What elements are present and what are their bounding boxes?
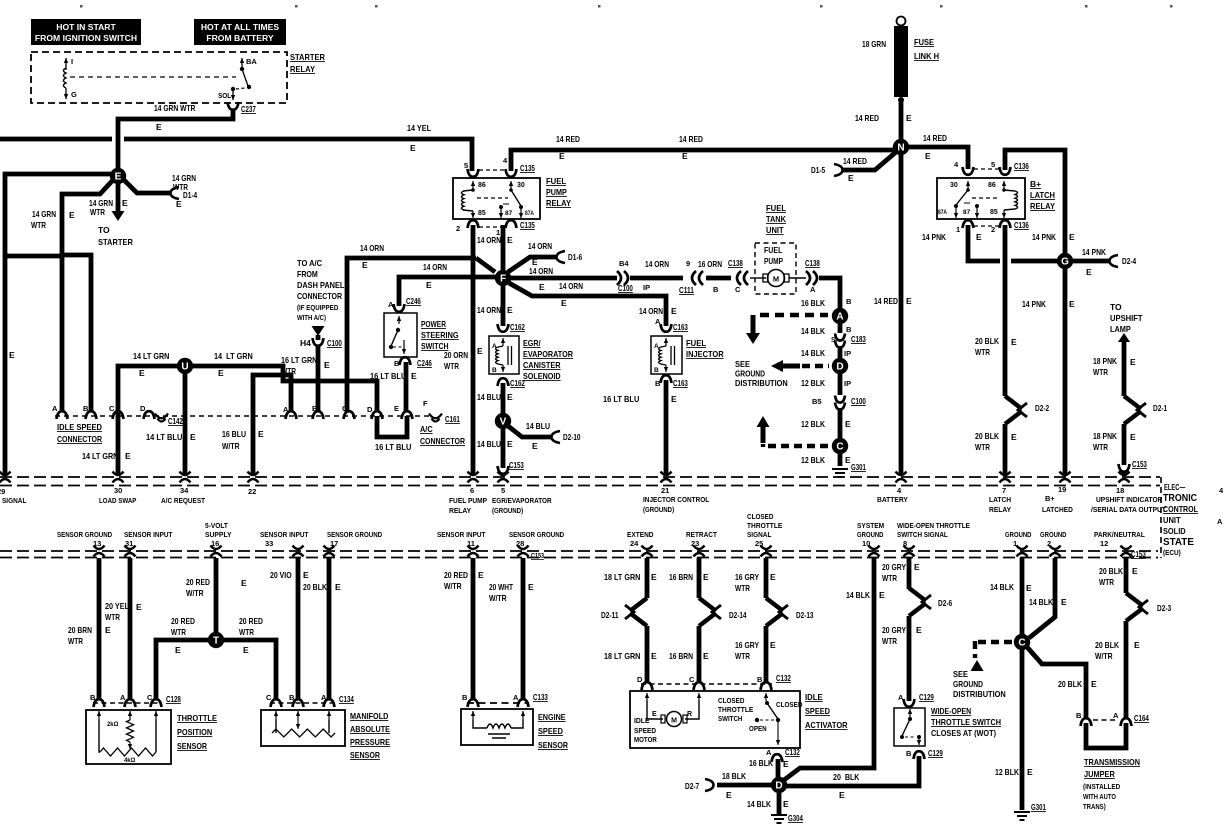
svg-text:D2-14: D2-14 (729, 610, 747, 620)
wire 16 LT GRN WTR node U right to A/C connector D (192, 366, 377, 412)
svg-text:SPEED: SPEED (538, 726, 563, 736)
svg-text:C: C (109, 404, 115, 413)
svg-text:E: E (528, 582, 534, 592)
svg-text:B: B (312, 404, 318, 413)
wire 16 BRN ECU pin 23 to D2-14 to ISA pin C (697, 558, 702, 598)
svg-text:IDLE SPEED: IDLE SPEED (57, 422, 102, 432)
svg-text:SPEED: SPEED (634, 726, 657, 735)
svg-text:D: D (637, 675, 643, 684)
ground distribution arrow down (751, 315, 756, 334)
svg-text:E: E (925, 151, 931, 161)
svg-text:E: E (122, 198, 128, 208)
svg-text:(INSTALLED: (INSTALLED (1083, 784, 1120, 791)
wire 14 BLU node V down to C153 and ECU pin 5 (501, 428, 506, 468)
svg-text:10: 10 (862, 539, 870, 548)
svg-text:SENSOR: SENSOR (350, 750, 380, 760)
svg-text:2: 2 (1047, 539, 1051, 548)
EGR/evaporator canister solenoid box (489, 336, 519, 374)
svg-text:C: C (836, 442, 843, 453)
svg-text:SENSOR INPUT: SENSOR INPUT (437, 530, 486, 539)
wire 14 BLK ECU pin 1 ground to node C (1020, 558, 1025, 635)
node V junction (495, 413, 511, 429)
svg-text:PUMP: PUMP (546, 187, 567, 197)
wire 18 PNK WTR upshift lamp to D2-1 to C153 ECU pin 18 (1122, 342, 1127, 396)
inline connector C138 output side (806, 271, 817, 285)
svg-text:16 LT GRN: 16 LT GRN (281, 355, 317, 365)
svg-text:20 RED: 20 RED (171, 616, 195, 626)
svg-text:WITH AUTO: WITH AUTO (1083, 794, 1116, 801)
svg-text:A/C REQUEST: A/C REQUEST (161, 496, 205, 505)
wire 14 RED node N down to ECU pin 4 battery (899, 154, 904, 476)
starter relay coil (ignition winding I-G) (65, 58, 67, 70)
svg-text:16 BLK: 16 BLK (801, 298, 826, 308)
wire node E to D1-4 (123, 179, 170, 193)
svg-text:E: E (190, 432, 196, 442)
svg-text:G: G (1061, 257, 1069, 268)
svg-text:20 BLK: 20 BLK (1058, 679, 1083, 689)
svg-text:E: E (1026, 583, 1032, 593)
svg-text:C: C (735, 285, 741, 294)
svg-text:B: B (289, 693, 295, 702)
svg-text:E: E (335, 582, 341, 592)
svg-text:T: T (213, 636, 219, 647)
wire 18 BLK D2-7 to node D (705, 779, 714, 791)
svg-text:E: E (324, 360, 330, 370)
wire 14 ORN branch to A/C connector C (347, 258, 476, 412)
svg-text:SEE: SEE (735, 359, 750, 369)
svg-text:E: E (652, 711, 657, 718)
svg-text:16 LT BLU: 16 LT BLU (603, 394, 639, 404)
svg-text:14 RED: 14 RED (874, 296, 898, 306)
svg-text:E: E (1130, 432, 1136, 442)
svg-text:C138: C138 (728, 258, 743, 268)
svg-text:D: D (367, 405, 373, 414)
svg-text:E: E (703, 651, 709, 661)
svg-text:16 BRN: 16 BRN (669, 651, 693, 661)
svg-text:C100: C100 (618, 283, 633, 293)
svg-text:M: M (773, 274, 779, 283)
wire 12 BLK node C to G301 (838, 453, 843, 466)
svg-text:B: B (83, 404, 89, 413)
label box HOT AT ALL TIMES FROM BATTERY (194, 19, 286, 45)
svg-text:D: D (836, 362, 843, 373)
svg-text:E: E (507, 392, 513, 402)
svg-text:14 BLK: 14 BLK (990, 582, 1015, 592)
svg-text:WIDE-OPEN: WIDE-OPEN (931, 706, 971, 716)
wire 14 RED node N to B+ latch relay pin 4 (907, 147, 968, 169)
svg-text:RELAY: RELAY (546, 198, 571, 208)
svg-text:EXTEND: EXTEND (627, 530, 654, 539)
svg-text:(ECU): (ECU) (1163, 548, 1181, 557)
svg-text:14 PNK: 14 PNK (1082, 247, 1107, 257)
svg-text:14 ORN: 14 ORN (639, 306, 663, 316)
svg-text:D2-6: D2-6 (938, 598, 952, 608)
MAP connector row C134 (271, 699, 282, 707)
fuel pump relay coil 86-85 (472, 181, 474, 189)
svg-text:WTR: WTR (735, 651, 750, 661)
svg-text:14 RED: 14 RED (855, 113, 879, 123)
svg-text:23: 23 (691, 539, 699, 548)
svg-text:E: E (176, 199, 182, 209)
svg-text:16 ORN: 16 ORN (698, 259, 722, 269)
svg-text:20 BRN: 20 BRN (68, 625, 92, 635)
connector C162 bottom (498, 378, 509, 386)
svg-text:E: E (845, 419, 851, 429)
svg-text:E: E (1134, 640, 1140, 650)
svg-text:D2-1: D2-1 (1153, 403, 1167, 413)
wire 20 BLK node D to WOT switch pin B (786, 756, 919, 786)
svg-text:C133: C133 (533, 692, 548, 702)
svg-text:E: E (916, 625, 922, 635)
svg-text:5-VOLT: 5-VOLT (205, 521, 228, 530)
svg-text:20 VIO: 20 VIO (270, 570, 292, 580)
wire 16 LT BLU PSS pin B down to A/C connector E (404, 362, 409, 412)
svg-text:WTR: WTR (882, 573, 897, 583)
svg-text:ELEC—: ELEC— (1164, 483, 1185, 492)
ground distribution dashed link to node A (760, 313, 828, 317)
svg-text:D1-6: D1-6 (568, 252, 582, 262)
svg-text:POWER: POWER (421, 319, 446, 329)
svg-text:LOAD SWAP: LOAD SWAP (99, 496, 136, 505)
manifold absolute pressure sensor box (261, 710, 345, 746)
svg-text:E: E (69, 210, 75, 220)
svg-text:E: E (532, 441, 538, 451)
svg-text:E: E (105, 625, 111, 635)
wire 14 LT BLU node U down to ECU pin 34 (183, 373, 188, 476)
svg-text:BATTERY: BATTERY (877, 495, 908, 504)
svg-text:28: 28 (516, 539, 524, 548)
svg-text:SYSTEM: SYSTEM (857, 521, 884, 530)
svg-text:DISTRIBUTION: DISTRIBUTION (735, 378, 788, 388)
svg-text:E: E (906, 113, 912, 123)
svg-text:12 BLK: 12 BLK (801, 378, 826, 388)
fuel pump relay C135 top pins 5 4 (468, 169, 479, 177)
wire 20 YEL WTR ECU pin 31 to TPS pin A (128, 558, 133, 700)
connector C163 bottom (661, 375, 672, 383)
svg-text:A: A (513, 693, 519, 702)
svg-text:12 BLK: 12 BLK (995, 767, 1020, 777)
svg-text:29: 29 (0, 487, 5, 496)
svg-text:PRESSURE: PRESSURE (350, 737, 390, 747)
svg-text:E: E (362, 260, 368, 270)
svg-text:E: E (394, 404, 399, 413)
svg-text:E: E (539, 282, 545, 292)
svg-text:CLOSES AT (WOT): CLOSES AT (WOT) (931, 728, 996, 738)
svg-text:14 BLK: 14 BLK (801, 326, 826, 336)
svg-text:GROUND: GROUND (1040, 530, 1067, 539)
svg-text:D: D (140, 404, 146, 413)
svg-text:CONNECTOR: CONNECTOR (420, 436, 465, 446)
svg-text:V: V (500, 417, 507, 428)
svg-text:WTR: WTR (173, 182, 188, 192)
svg-text:(IF EQUIPPED: (IF EQUIPPED (297, 305, 338, 312)
node U junction (177, 358, 193, 374)
svg-text:RETRACT: RETRACT (686, 530, 717, 539)
ground distribution dashed from node C (978, 640, 1014, 644)
engine speed sensor box (461, 709, 533, 745)
TPS connector row C128 (94, 699, 105, 707)
wire 14 BLK node D to ECU pin 10 system ground (784, 558, 874, 780)
svg-text:20 RED: 20 RED (444, 570, 468, 580)
svg-text:C237: C237 (241, 104, 256, 114)
svg-text:C136: C136 (1014, 161, 1029, 171)
wire 20 BLK ECU pin 17 to MAP pin A (327, 558, 332, 700)
svg-text:HOT IN START: HOT IN START (56, 22, 116, 32)
svg-text:RELAY: RELAY (989, 505, 1011, 514)
svg-text:PUMP: PUMP (764, 257, 783, 266)
svg-text:WTR: WTR (444, 361, 459, 371)
svg-text:A: A (120, 693, 126, 702)
wire node E down TO STARTER arrow (116, 181, 121, 212)
svg-text:WTR: WTR (882, 636, 897, 646)
svg-text:C: C (266, 693, 272, 702)
wire 14 YEL horizontal bus (0, 137, 112, 142)
svg-text:E: E (478, 570, 484, 580)
svg-text:FUEL PUMP: FUEL PUMP (449, 496, 487, 505)
svg-text:B: B (654, 367, 659, 374)
svg-text:TO A/C: TO A/C (297, 258, 322, 268)
svg-text:11: 11 (467, 539, 475, 548)
wire 14 GRN WTR from C237 to node E (118, 109, 233, 172)
inline connector 9 C111 (692, 271, 703, 285)
B+ latch relay C136 bottom pins 1 2 (963, 220, 974, 228)
svg-text:14 RED: 14 RED (556, 134, 580, 144)
svg-text:OPEN: OPEN (749, 724, 767, 733)
svg-text:25: 25 (755, 539, 763, 548)
svg-text:TRANSMISSION: TRANSMISSION (1084, 757, 1140, 767)
svg-text:B: B (655, 379, 661, 388)
svg-text:INJECTOR: INJECTOR (686, 349, 724, 359)
svg-text:E: E (507, 305, 513, 315)
svg-text:CONNECTOR: CONNECTOR (297, 291, 342, 301)
svg-text:SENSOR GROUND: SENSOR GROUND (327, 530, 383, 539)
svg-text:20 BLK: 20 BLK (975, 336, 1000, 346)
node D junction (ground distribution) (832, 358, 848, 374)
svg-text:GROUND: GROUND (953, 679, 983, 689)
svg-text:EGR/: EGR/ (523, 338, 541, 348)
svg-text:SOL: SOL (218, 91, 232, 100)
wire 20 BLK node C to transmission jumper B (1027, 647, 1086, 718)
svg-text:20 GRY: 20 GRY (882, 562, 906, 572)
svg-text:E: E (303, 570, 309, 580)
svg-text:SPEED: SPEED (805, 706, 830, 716)
svg-text:20 BLK: 20 BLK (1099, 566, 1124, 576)
svg-text:E: E (848, 173, 854, 183)
svg-text:14 RED: 14 RED (843, 156, 867, 166)
svg-text:14 ORN: 14 ORN (645, 259, 669, 269)
wire H4 down to A/C connector B (316, 346, 321, 412)
svg-text:ABSOLUTE: ABSOLUTE (350, 724, 390, 734)
svg-text:FROM: FROM (297, 269, 318, 279)
svg-text:C134: C134 (339, 694, 354, 704)
svg-text:E: E (651, 651, 657, 661)
B+ latch relay coil 86-85 (1003, 181, 1005, 189)
svg-text:6: 6 (470, 486, 474, 495)
ECU boundary lower dashed lines (0, 550, 1158, 552)
svg-text:31: 31 (125, 539, 133, 548)
svg-text:E: E (1086, 267, 1092, 277)
svg-text:FROM BATTERY: FROM BATTERY (206, 33, 274, 43)
svg-text:C111: C111 (679, 285, 694, 295)
svg-text:WITH A/C): WITH A/C) (297, 315, 326, 322)
svg-text:C153: C153 (1131, 549, 1146, 559)
svg-text:E: E (507, 235, 513, 245)
svg-text:E: E (243, 645, 249, 655)
svg-text:14 GRN: 14 GRN (32, 209, 56, 219)
svg-text:E: E (1132, 566, 1138, 576)
svg-text:WTR: WTR (239, 627, 254, 637)
svg-text:14 BLK: 14 BLK (1029, 597, 1054, 607)
fuel pump motor in dashed fuel tank box (755, 243, 796, 294)
svg-text:E: E (906, 296, 912, 306)
svg-text:SIGNAL: SIGNAL (2, 496, 27, 505)
svg-text:IDLE: IDLE (634, 716, 650, 725)
svg-text:ENGINE: ENGINE (538, 712, 566, 722)
svg-text:14 BLU: 14 BLU (477, 439, 501, 449)
svg-text:THROTTLE: THROTTLE (718, 705, 753, 714)
wire 14 BLU node V to D2-10 (508, 426, 551, 437)
svg-text:E: E (839, 790, 845, 800)
svg-text:20 WHT: 20 WHT (489, 582, 514, 592)
svg-text:W/TR: W/TR (1095, 651, 1113, 661)
svg-text:E: E (507, 439, 513, 449)
svg-text:FUSE: FUSE (914, 37, 934, 47)
connector row dashed line C142/C161 (55, 415, 433, 417)
svg-text:TO: TO (98, 225, 110, 235)
svg-text:WTR: WTR (1099, 577, 1114, 587)
svg-text:E: E (726, 790, 732, 800)
svg-text:FUEL: FUEL (546, 176, 566, 186)
svg-text:TO: TO (1110, 302, 1122, 312)
wire 14 ORN fuel line node F to B4 C100 (510, 276, 617, 281)
svg-text:UNIT: UNIT (766, 225, 784, 235)
svg-text:12: 12 (1100, 539, 1108, 548)
wire 14 ORN fuel-line to power steering switch pin A (399, 277, 497, 306)
svg-text:14 LT GRN: 14 LT GRN (133, 351, 169, 361)
svg-text:I: I (71, 57, 73, 66)
svg-text:D: D (775, 781, 782, 792)
svg-text:13: 13 (93, 539, 101, 548)
svg-text:G301: G301 (1031, 802, 1046, 812)
svg-text:D2-2: D2-2 (1035, 403, 1049, 413)
svg-text:IP: IP (844, 349, 851, 358)
wire 16 BLU W/TR ECU pin 22 to A/C connector A (253, 375, 291, 476)
svg-text:STATE: STATE (1163, 536, 1194, 548)
svg-text:E: E (1011, 432, 1017, 442)
svg-text:IP: IP (643, 283, 650, 292)
svg-text:CANISTER: CANISTER (523, 360, 561, 370)
svg-text:POSITION: POSITION (177, 727, 212, 737)
page top edge marks (80, 5, 83, 8)
idle speed motor (646, 693, 648, 701)
svg-text:B: B (713, 285, 719, 294)
wire 12 BLK C100 to node C (838, 408, 843, 438)
wire 14 RED D1-5 to node N (834, 164, 843, 176)
jumper wire 16 LT BLU between A/C connector D and E (377, 416, 407, 437)
svg-text:C135: C135 (520, 163, 535, 173)
svg-text:E: E (156, 122, 162, 132)
svg-text:SENSOR INPUT: SENSOR INPUT (260, 530, 309, 539)
svg-text:W/TR: W/TR (222, 441, 240, 451)
wire 14 PNK node G down to ECU pin 19 (1063, 268, 1068, 476)
ECU boundary crossing marks row 2 (94, 546, 105, 557)
svg-text:14 RED: 14 RED (679, 134, 703, 144)
svg-text:SENSOR: SENSOR (177, 741, 207, 751)
wire 20 RED W/TR ECU pin 11 to ESS pin B (471, 558, 476, 700)
ESS connector row C133 (468, 699, 479, 707)
svg-text:E: E (125, 451, 131, 461)
wire 14 RED fuse link to node N (899, 102, 904, 140)
svg-text:STEERING: STEERING (421, 330, 459, 340)
svg-text:16 GRY: 16 GRY (735, 572, 759, 582)
svg-text:D2-4: D2-4 (1122, 256, 1136, 266)
wire 12 BLK node D to C100 (838, 373, 843, 395)
svg-text:14 LT GRN: 14 LT GRN (214, 351, 253, 361)
svg-text:A: A (1113, 711, 1119, 720)
svg-text:STARTER: STARTER (98, 237, 133, 247)
svg-text:W/TR: W/TR (489, 593, 507, 603)
connector C163 top (661, 324, 672, 332)
svg-text:E: E (175, 645, 181, 655)
svg-text:C132: C132 (776, 673, 791, 683)
svg-text:E: E (783, 759, 789, 769)
svg-text:E: E (770, 572, 776, 582)
svg-text:87: 87 (505, 210, 513, 217)
svg-text:14 ORN: 14 ORN (559, 281, 583, 291)
svg-text:E: E (1069, 299, 1075, 309)
wire 14 BLK node D to ground G304 (777, 792, 782, 814)
svg-text:MANIFOLD: MANIFOLD (350, 711, 388, 721)
svg-text:87: 87 (963, 209, 971, 216)
svg-text:E: E (115, 172, 122, 183)
throttle position sensor box (86, 710, 171, 764)
svg-text:14 YEL: 14 YEL (407, 123, 431, 133)
svg-text:WTR: WTR (105, 612, 120, 622)
svg-text:20 BLK: 20 BLK (833, 772, 860, 782)
svg-text:21: 21 (661, 486, 669, 495)
svg-text:SENSOR GROUND: SENSOR GROUND (57, 530, 113, 539)
wire 14 ORN node F to fuel injector pin A (509, 283, 666, 326)
svg-text:5: 5 (991, 160, 995, 169)
svg-text:C161: C161 (445, 414, 460, 424)
svg-text:FUEL: FUEL (766, 203, 786, 213)
svg-text:B: B (394, 359, 400, 368)
svg-text:E: E (218, 368, 224, 378)
svg-text:7: 7 (1002, 486, 1006, 495)
svg-text:EGR/EVAPORATOR: EGR/EVAPORATOR (492, 496, 552, 505)
svg-text:B: B (492, 367, 497, 374)
wire 16 BLK ISA pin A to node D (776, 759, 781, 778)
svg-text:17: 17 (330, 539, 338, 548)
ISA connector row dashed (641, 683, 772, 685)
wire 16 BLK C138 to node A (819, 278, 840, 310)
svg-text:5: 5 (464, 161, 468, 170)
svg-text:14 RED: 14 RED (923, 133, 947, 143)
svg-text:C135: C135 (520, 220, 535, 230)
svg-text:WTR: WTR (735, 583, 750, 593)
svg-text:E: E (703, 572, 709, 582)
svg-text:LATCH: LATCH (989, 495, 1011, 504)
idle speed connector pins A B C D (57, 411, 68, 419)
wire 16 LT BLU injector to ECU pin 21 (664, 380, 669, 476)
svg-text:85: 85 (478, 210, 486, 217)
svg-text:22: 22 (248, 487, 256, 496)
svg-text:12 BLK: 12 BLK (801, 419, 826, 429)
svg-text:C163: C163 (673, 322, 688, 332)
svg-text:SEE: SEE (953, 669, 968, 679)
svg-text:M: M (671, 717, 677, 724)
svg-text:H4: H4 (300, 338, 311, 348)
